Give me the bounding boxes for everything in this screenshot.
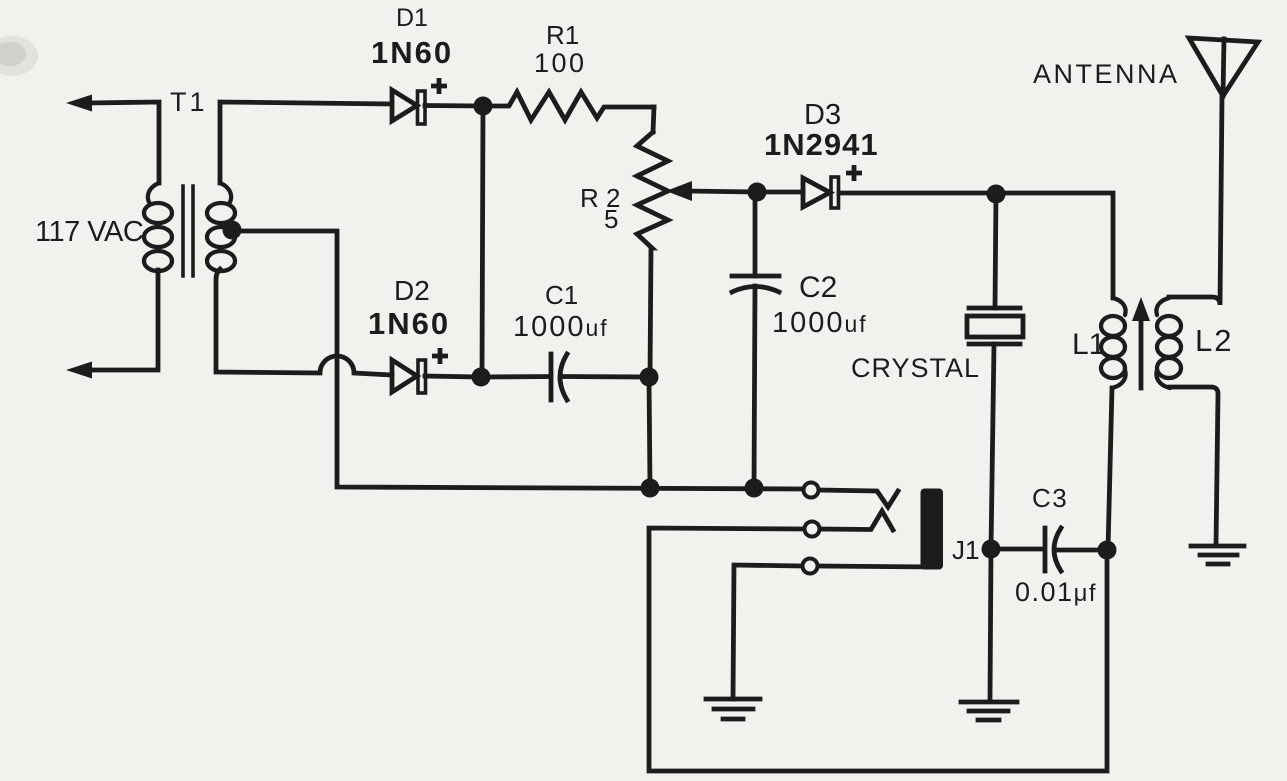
polarity + of D3 [846,165,862,181]
diode D1 [392,90,425,124]
inductor L2 [1156,298,1181,388]
svg-text:R1: R1 [546,20,579,50]
node F: rail/C2 junction [745,479,764,498]
ground under crystal [961,702,1017,720]
svg-text:1N60: 1N60 [368,306,450,341]
polarity + of D1 [431,78,447,94]
wire: L2 bottom to ground [1170,387,1218,545]
node A: D1/R1 junction [474,97,493,116]
svg-text:L1: L1 [1072,328,1105,361]
diode D3 [803,177,839,208]
jack contact 2 [805,522,820,537]
node C: R2/C1 junction [640,368,659,387]
wire: bottom frame loop [649,528,1107,771]
svg-text:100: 100 [534,48,587,78]
wire: secondary top to D1 [220,102,392,183]
jack arm 1 [819,490,898,507]
svg-text:1N2941: 1N2941 [764,127,879,162]
capacitor C3 [991,528,1107,571]
svg-text:L2: L2 [1195,323,1233,358]
node E: wiper/C2 junction [748,183,767,202]
jack arm 2 [820,511,893,530]
wire: R1 to R2 [653,107,654,132]
svg-text:C1: C1 [545,280,578,310]
ground under jack [706,699,760,719]
wire: node C down to rail [649,377,650,488]
potentiometer R2 [637,132,668,377]
node: secondary center tap [223,221,242,240]
jack contact 3 [803,559,818,574]
polarity + of D2 [432,348,448,364]
transformer T1 primary winding [144,183,172,271]
node B: D2/C1 junction [472,368,491,387]
svg-text:0.01μf: 0.01μf [1015,577,1097,607]
wire: D1 to node A [425,103,483,108]
svg-text:C2: C2 [799,271,837,304]
svg-text:ANTENNA: ANTENNA [1033,59,1180,89]
svg-text:1N60: 1N60 [371,35,453,70]
svg-text:117 VAC: 117 VAC [35,216,143,248]
svg-text:C3: C3 [1032,483,1068,513]
jack contact 1 [804,483,819,498]
node I: C3/L1 junction [1098,541,1117,560]
wire: node E to D3 [757,190,803,195]
coupling arrow between L1 and L2 [1132,297,1150,388]
node D: rail/C1 branch junction [641,479,660,498]
wire: contact 3 branch to ground [733,565,802,699]
transformer T1 core [183,186,193,276]
svg-text:T1: T1 [170,87,208,117]
capacitor C1 [481,354,649,400]
svg-text:J1: J1 [952,535,979,565]
inductor L1 [1101,298,1126,388]
wire: node H to ground [990,549,991,699]
diode D2 [392,360,426,393]
wire: secondary bottom to D2 [216,269,392,375]
node G: D3/crystal junction [987,185,1006,204]
wire: L1 bottom to node I [1108,388,1112,549]
svg-text:1000uf: 1000uf [513,311,609,343]
terminal arrow: AC bottom [66,362,92,379]
ground under L2 [1191,546,1244,564]
terminal arrow: AC top [66,95,92,112]
wiper arrow of R2 [666,181,756,201]
svg-text:5: 5 [604,204,618,234]
wire: D3 to node G [839,191,996,196]
wire: AC input bottom lead [88,270,158,370]
wire: D2 to node B [425,376,481,377]
wire: center tap to ground rail [240,231,803,489]
wire: node A down to node B [482,106,483,377]
resistor R1 [483,92,654,120]
transformer T1 secondary winding [207,183,235,271]
node H: crystal/C3 junction [982,540,1001,559]
jack J1 body [921,489,944,570]
wire: contact 3 to J1 sleeve [818,566,936,567]
capacitor C2 [732,192,779,488]
wire: AC input top lead [88,102,159,183]
wire: L2 top to antenna [1169,96,1222,305]
svg-text:1000uf: 1000uf [772,307,868,339]
svg-text:D2: D2 [394,275,430,306]
crystal Y1 [967,194,1023,549]
wire: node G to L1 top [996,193,1113,298]
antenna [1189,38,1258,96]
svg-text:CRYSTAL: CRYSTAL [851,353,980,383]
svg-text:D1: D1 [396,4,428,32]
